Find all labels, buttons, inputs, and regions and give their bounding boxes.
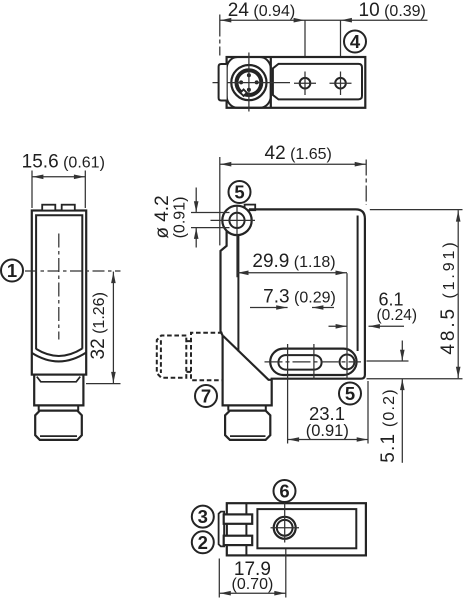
svg-text:7.3 (0.29): 7.3 (0.29) xyxy=(263,286,336,307)
mounting hole 2 (top view) xyxy=(335,78,346,89)
side view body outline xyxy=(221,209,365,405)
callout 3 xyxy=(192,506,214,528)
front view connector collar xyxy=(34,375,83,406)
slot horizontal centerline xyxy=(265,361,362,363)
M8 connector thread ring xyxy=(237,70,262,95)
clamp tab lower (callout 2) xyxy=(224,536,253,545)
svg-text:(0.91): (0.91) xyxy=(172,197,189,239)
M8 connector pin 3 xyxy=(247,88,251,92)
callout 7 xyxy=(195,385,217,407)
svg-text:(0.24): (0.24) xyxy=(377,307,418,324)
mounting boss circle (top-left lug) xyxy=(222,206,251,235)
M8 connector pin 4 xyxy=(239,80,243,84)
collar chamfer detail xyxy=(37,377,80,382)
bottom view: sensor housing seen from below xyxy=(227,503,366,555)
top view connector-section divider wall xyxy=(270,57,272,108)
svg-text:ø 4.2: ø 4.2 xyxy=(152,195,173,238)
extension line: hole 1 xyxy=(304,20,306,56)
top view body outline xyxy=(227,57,366,108)
front view top tabs xyxy=(42,205,55,211)
M8 connector pin 1 xyxy=(247,73,251,77)
svg-text:29.9 (1.18): 29.9 (1.18) xyxy=(252,251,335,272)
svg-text:2: 2 xyxy=(198,532,208,553)
side view top tab xyxy=(245,205,256,211)
svg-text:4: 4 xyxy=(350,31,361,52)
lens window arc (inner) xyxy=(36,349,82,356)
connector neck xyxy=(39,405,78,410)
mounting hole o4.2 xyxy=(229,213,244,228)
inner wall right xyxy=(357,216,359,352)
M8 connector pin 2 xyxy=(255,80,259,84)
svg-text:42 (1.65): 42 (1.65) xyxy=(265,143,332,164)
beam axis centerline (horizontal) xyxy=(25,270,121,272)
svg-text:5: 5 xyxy=(234,182,244,203)
svg-text:6: 6 xyxy=(279,481,289,502)
extension line: front face plane (dash-dot) xyxy=(219,15,221,56)
top view: sensor housing seen from above xyxy=(227,57,366,108)
optical axis centerline (vertical) xyxy=(58,234,60,340)
phantom plug xyxy=(157,336,187,378)
svg-text:(0.70): (0.70) xyxy=(232,576,274,593)
connector centerline horizontal xyxy=(213,82,291,84)
plug end detail line (side view) xyxy=(230,435,266,437)
boss crosshair xyxy=(211,207,256,278)
svg-text:48.5 (1.91): 48.5 (1.91) xyxy=(438,239,459,354)
svg-text:5.1 (0.2): 5.1 (0.2) xyxy=(378,388,399,463)
callout 6 xyxy=(274,480,296,502)
side view connector neck xyxy=(228,405,265,410)
bottom view inner pocket xyxy=(257,509,356,548)
phantom neck xyxy=(186,341,191,372)
svg-text:24 (0.94): 24 (0.94) xyxy=(228,0,295,21)
M8 connector key notch xyxy=(240,89,247,96)
callout 5 (upper) xyxy=(229,181,251,203)
svg-text:1: 1 xyxy=(7,260,17,281)
inner wall left (optic housing) xyxy=(237,234,239,352)
M8 connector end face: outer circle xyxy=(231,65,266,100)
phantom plug end line xyxy=(160,340,162,373)
front view: sensor seen from front (optical face) xyxy=(32,211,86,375)
svg-text:3: 3 xyxy=(198,506,208,527)
callout 2 xyxy=(192,531,214,553)
svg-text:5: 5 xyxy=(345,383,355,404)
clamp tab upper (callout 3) xyxy=(224,514,253,523)
lens window arc (outer) xyxy=(32,353,86,362)
M8 plug body (side view) xyxy=(225,411,270,440)
svg-text:10 (0.39): 10 (0.39) xyxy=(359,0,426,21)
svg-text:15.6 (0.61): 15.6 (0.61) xyxy=(22,152,105,173)
svg-text:32 (1.26): 32 (1.26) xyxy=(88,292,109,359)
clamp recess wall xyxy=(245,503,247,555)
callout 4 xyxy=(344,31,366,53)
top view connector collar fillet (rounded square) xyxy=(227,57,271,108)
clamp strip (bottom view) xyxy=(219,512,225,547)
svg-text:(0.91): (0.91) xyxy=(306,422,349,440)
slot boss (stadium) around mounting slot xyxy=(270,349,356,375)
screw hole with counterbore (bottom view) xyxy=(274,517,296,539)
M8 plug body (front view) xyxy=(35,411,82,440)
phantom M8 connector, side exit (dashed) : collar xyxy=(157,333,223,381)
45deg chamfer edge (wedge) xyxy=(223,336,272,380)
slot arc center verticals + M3 vertical xyxy=(287,344,289,444)
front view outer body xyxy=(32,211,86,375)
mounting hole 1 (top view) xyxy=(300,78,311,89)
plug end detail line xyxy=(40,435,77,437)
front view inner face outline xyxy=(36,215,82,349)
dimension 32 (1.26): axis to bottom xyxy=(86,383,121,385)
connector centerline vertical xyxy=(248,53,250,112)
callout 1 xyxy=(1,260,23,282)
callout 5 (lower) xyxy=(339,383,361,405)
bottom view body outline xyxy=(227,503,366,555)
extension line: hole 2 xyxy=(340,20,342,56)
top view inner pocket (mounting hole recess) xyxy=(273,64,362,100)
top view mounting clamp strip (left tab) xyxy=(219,64,227,101)
mounting slot (oblong hole) xyxy=(278,355,321,370)
M3 screw hole (lower right) xyxy=(340,355,355,370)
svg-text:7: 7 xyxy=(201,386,211,407)
